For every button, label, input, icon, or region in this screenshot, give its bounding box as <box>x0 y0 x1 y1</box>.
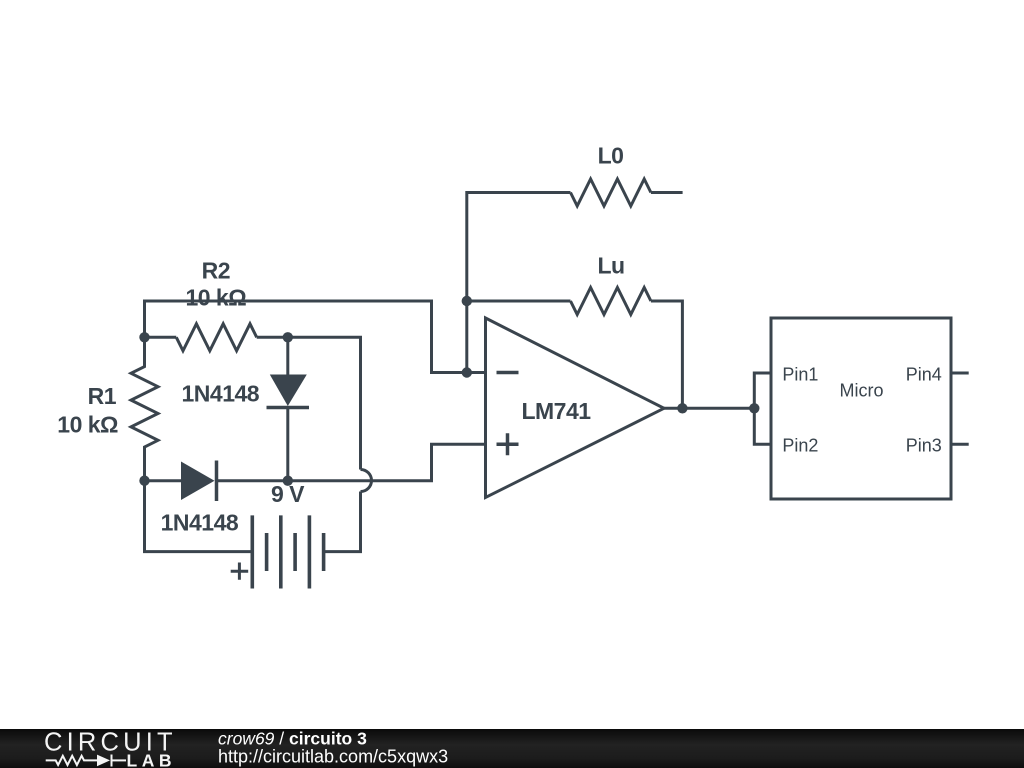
pin stub Pin3 <box>951 443 969 446</box>
node: inverting input junction <box>462 367 472 377</box>
node: L0/Lu junction <box>462 296 472 306</box>
micro U2 box <box>771 318 951 499</box>
wire: D1 anode lead <box>286 337 289 374</box>
svg-text:10 kΩ: 10 kΩ <box>185 285 246 311</box>
battery V1 plate short 3 <box>322 533 326 571</box>
op-amp U1 plus symbol <box>497 433 519 455</box>
node: R1/R2 left node <box>139 332 149 342</box>
diode D2 cathode bar <box>215 461 219 502</box>
svg-text:http://circuitlab.com/c5xqwx3: http://circuitlab.com/c5xqwx3 <box>218 747 448 767</box>
battery V1 plate short 2 <box>293 533 297 571</box>
battery V1 plus sign <box>231 563 249 580</box>
svg-text:1N4148: 1N4148 <box>161 510 239 536</box>
diode D1 triangle <box>270 375 307 407</box>
wire: 9V row to non-inverting input <box>288 444 486 480</box>
wire: Lu left lead <box>467 300 571 303</box>
svg-text:Pin1: Pin1 <box>782 364 818 384</box>
logo resistor squiggle <box>46 756 97 765</box>
node: R2/D1 node <box>283 332 293 342</box>
svg-text:LAB: LAB <box>127 751 176 768</box>
resistor R1 with leads <box>131 337 158 480</box>
battery V1 plate short 1 <box>265 533 269 571</box>
node: 9V node <box>283 476 293 486</box>
resistor L0 zigzag <box>571 179 651 206</box>
node: output junction <box>677 403 687 413</box>
logo lead into LAB <box>112 759 127 761</box>
wire: riser below hop to battery negative <box>324 492 361 552</box>
node: micro bracket junction <box>749 403 759 413</box>
svg-text:Lu: Lu <box>597 252 624 278</box>
footer bar <box>0 729 1024 768</box>
op-amp U1 triangle <box>486 318 665 498</box>
svg-text:LM741: LM741 <box>521 398 591 424</box>
op-amp U1 minus symbol <box>497 371 519 375</box>
wire: R2/D1 node to 9V riser top <box>288 337 361 469</box>
wire: D2 anode lead <box>145 479 182 482</box>
battery V1 plate long 2 <box>279 515 283 588</box>
resistor Lu zigzag <box>571 288 651 315</box>
wire: L0 left lead and riser to inverting net <box>467 193 571 302</box>
wire: Lu right lead down to output node <box>651 301 683 408</box>
wire: hop arc over 9V row <box>361 470 372 492</box>
wire: R2 right lead <box>257 336 288 339</box>
logo diode bar <box>111 755 113 767</box>
wire: micro input bracket <box>754 373 771 444</box>
svg-text:crow69 / circuito 3: crow69 / circuito 3 <box>218 729 367 749</box>
battery V1 plate long 1 <box>251 515 255 588</box>
svg-text:Micro: Micro <box>840 380 884 400</box>
wire: bottom-left node to battery positive <box>145 481 253 552</box>
pin stub Pin4 <box>951 372 969 375</box>
wire: L0 right stub <box>651 191 683 194</box>
battery V1 plate long 3 <box>308 515 312 588</box>
wire: D2 cathode to 9V node <box>217 479 288 482</box>
svg-text:R2: R2 <box>202 258 230 284</box>
resistor R2 zigzag <box>176 324 256 351</box>
svg-text:R1: R1 <box>88 383 117 409</box>
svg-text:1N4148: 1N4148 <box>182 380 260 406</box>
logo diode triangle <box>97 755 110 767</box>
svg-text:10 kΩ: 10 kΩ <box>57 412 118 438</box>
diode D2 triangle <box>181 462 215 501</box>
svg-text:9 V: 9 V <box>271 481 305 507</box>
svg-text:Pin4: Pin4 <box>906 364 942 384</box>
diode D1 cathode bar <box>267 406 310 410</box>
svg-text:L0: L0 <box>598 143 624 169</box>
svg-text:Pin2: Pin2 <box>782 436 818 456</box>
wire: inverting input riser <box>465 301 468 373</box>
svg-text:Pin3: Pin3 <box>906 436 942 456</box>
wire: D1 cathode to 9V node <box>286 408 289 481</box>
wire: R2 left lead <box>145 336 177 339</box>
wire: output lead to micro <box>664 407 754 410</box>
wire: R2 top feedback wire to inverting input <box>145 301 486 373</box>
node: bottom-left node <box>139 476 149 486</box>
